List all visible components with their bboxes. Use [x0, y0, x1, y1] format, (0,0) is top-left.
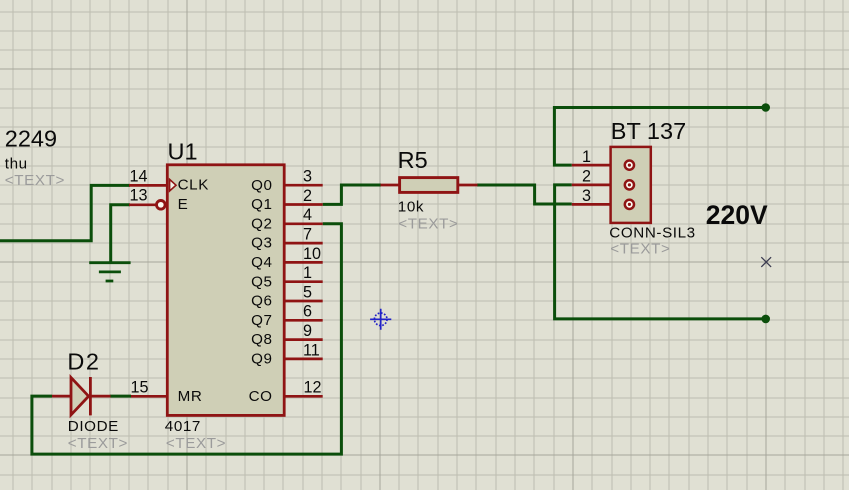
wire top rail to connector pin 1 — [554, 108, 765, 166]
svg-text:Q5: Q5 — [251, 273, 272, 290]
U1 right pin stub Q1 — [284, 203, 323, 206]
wire D2 cathode to U1 MR pin 15 — [110, 395, 131, 398]
svg-text:12: 12 — [304, 379, 322, 397]
svg-text:<TEXT>: <TEXT> — [68, 435, 128, 452]
wire E net to ground — [111, 205, 130, 262]
svg-text:E: E — [178, 196, 189, 213]
svg-text:2249: 2249 — [5, 125, 57, 151]
svg-text:Q7: Q7 — [251, 312, 272, 329]
U1 clock triangle symbol — [170, 179, 176, 191]
junction dot top right — [761, 103, 770, 112]
svg-text:BT 137: BT 137 — [611, 118, 686, 144]
diode D2 cathode lead — [91, 395, 111, 398]
svg-text:CLK: CLK — [178, 177, 209, 194]
svg-text:4017: 4017 — [165, 418, 201, 435]
svg-text:MR: MR — [178, 388, 203, 405]
svg-text:11: 11 — [303, 341, 320, 359]
U1 right pin stub Q5 — [284, 280, 323, 283]
svg-text:thu: thu — [5, 156, 28, 173]
wire connector pin 2 to bottom rail — [555, 185, 766, 319]
svg-text:3: 3 — [303, 168, 312, 186]
U1 right pin stub CO pin 12 — [284, 395, 323, 398]
svg-text:Q3: Q3 — [251, 235, 272, 252]
svg-text:CONN-SIL3: CONN-SIL3 — [609, 224, 695, 241]
svg-text:2: 2 — [582, 168, 591, 186]
diode D2 triangle — [71, 378, 89, 415]
U1 right pin stub Q3 — [284, 242, 323, 245]
svg-text:6: 6 — [303, 303, 312, 321]
connector J1 pin stub 1 — [572, 164, 611, 167]
svg-text:R5: R5 — [398, 147, 428, 173]
svg-text:14: 14 — [129, 168, 147, 186]
svg-text:1: 1 — [582, 148, 591, 166]
resistor R5 right lead — [459, 184, 478, 187]
svg-text:<TEXT>: <TEXT> — [166, 435, 226, 452]
resistor R5 body — [400, 178, 458, 193]
svg-text:Q0: Q0 — [251, 177, 272, 194]
svg-text:CO: CO — [249, 388, 273, 405]
U1 left pin stub E pin 13 — [129, 203, 156, 206]
svg-text:3: 3 — [582, 187, 591, 205]
svg-text:Q9: Q9 — [251, 351, 272, 368]
wire CLK net from left edge to U1 pin 14 — [0, 185, 130, 240]
svg-text:9: 9 — [303, 322, 312, 340]
resistor R5 left lead — [381, 184, 400, 187]
diode D2 cathode bar — [89, 377, 92, 415]
svg-text:1: 1 — [303, 264, 312, 282]
U1 right pin stub Q2 — [284, 222, 323, 225]
U1 right pin stub Q9 — [284, 358, 323, 361]
svg-text:Q4: Q4 — [251, 254, 272, 271]
svg-text:<TEXT>: <TEXT> — [610, 241, 670, 258]
U1 right pin stub Q0 — [284, 184, 323, 187]
ground — [89, 263, 130, 281]
connector J1 CONN-SIL3 body — [611, 147, 651, 223]
svg-text:4: 4 — [303, 206, 312, 224]
U1 left pin stub MR pin 15 — [131, 395, 168, 398]
svg-text:10: 10 — [303, 245, 321, 263]
svg-text:Q8: Q8 — [251, 331, 272, 348]
svg-text:15: 15 — [130, 378, 148, 396]
U1 left pin stub CLK pin 14 — [129, 184, 168, 187]
connector J1 pin stub 2 — [572, 184, 611, 187]
svg-text:<TEXT>: <TEXT> — [5, 172, 65, 189]
connector J1 pin circle 1 — [625, 161, 634, 170]
wire R5 to connector pin 3 — [477, 185, 572, 204]
svg-text:10k: 10k — [398, 198, 424, 215]
U1 right pin stub Q7 — [284, 319, 323, 322]
connector J1 pin stub 3 — [572, 203, 611, 206]
node marker cross — [761, 257, 771, 267]
svg-text:U1: U1 — [168, 138, 198, 164]
connector J1 pin circle 3 — [625, 200, 634, 209]
U1 inversion bubble on E — [157, 201, 166, 210]
IC U1 body — [167, 165, 284, 416]
svg-text:2: 2 — [303, 187, 312, 205]
U1 right pin stub Q4 — [284, 261, 323, 264]
svg-text:Q6: Q6 — [251, 293, 272, 310]
wire U1 Q1 to R5 — [323, 185, 381, 204]
svg-text:<TEXT>: <TEXT> — [398, 216, 458, 233]
svg-text:13: 13 — [129, 187, 147, 205]
U1 right pin stub Q6 — [284, 300, 323, 303]
svg-text:220V: 220V — [706, 200, 768, 230]
junction dot bottom right — [761, 315, 770, 324]
diode D2 anode lead — [52, 395, 71, 398]
svg-text:5: 5 — [303, 283, 312, 301]
origin crosshair marker — [370, 309, 391, 330]
svg-text:Q2: Q2 — [251, 215, 272, 232]
svg-text:Q1: Q1 — [251, 196, 272, 213]
svg-text:D2: D2 — [67, 348, 100, 374]
wire U1 Q2 loop to diode D2 anode — [32, 224, 342, 454]
svg-text:7: 7 — [303, 226, 312, 244]
svg-text:DIODE: DIODE — [68, 418, 119, 435]
U1 right pin stub Q8 — [284, 338, 323, 341]
connector J1 pin circle 2 — [625, 180, 634, 189]
